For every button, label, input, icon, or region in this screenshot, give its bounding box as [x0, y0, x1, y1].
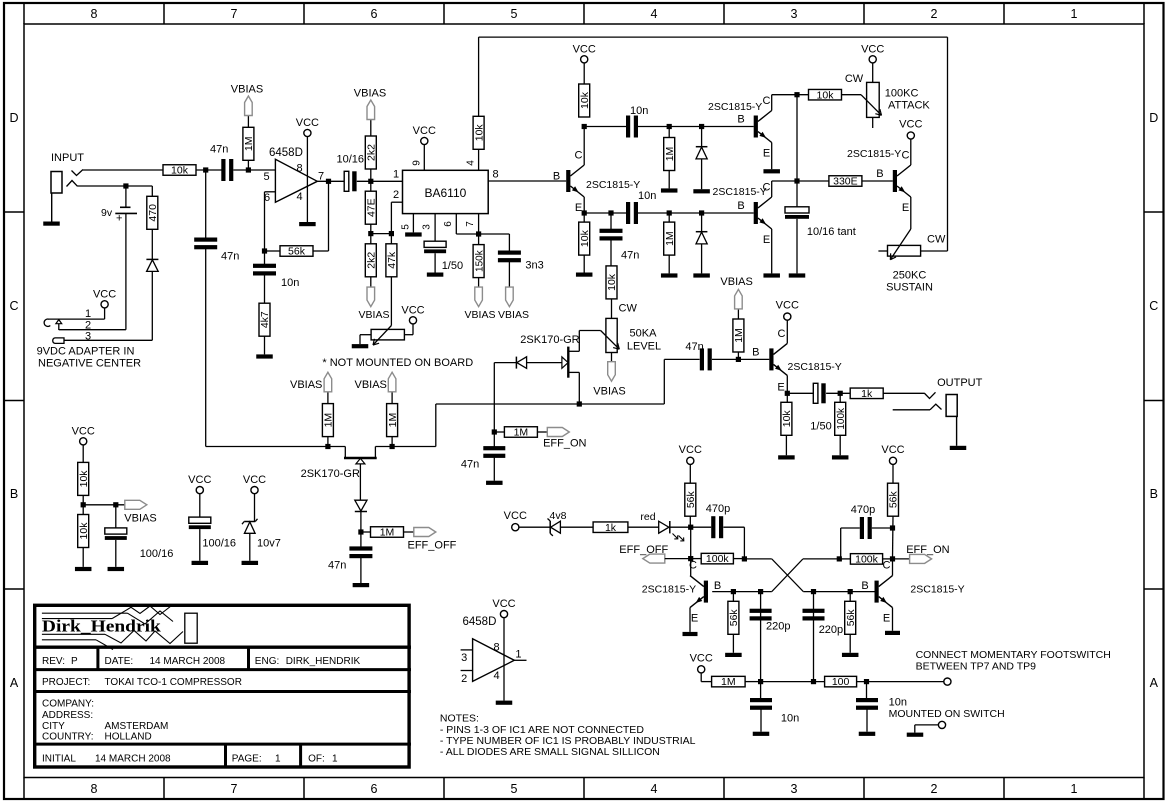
junction 220p left node	[758, 589, 763, 594]
junction divider	[81, 502, 86, 507]
svg-text:100k: 100k	[855, 554, 879, 566]
VCC 56k FF left	[687, 457, 694, 464]
svg-text:Dirk_Hendrik: Dirk_Hendrik	[42, 617, 162, 636]
svg-text:10k: 10k	[78, 522, 90, 540]
sustain pot left stub	[878, 250, 887, 252]
ground 1/50	[427, 273, 444, 277]
rail wire right side	[947, 37, 949, 251]
svg-text:VBIAS: VBIAS	[231, 84, 263, 96]
svg-text:B: B	[737, 200, 744, 212]
svg-text:VBIAS: VBIAS	[359, 309, 390, 321]
svg-text:C: C	[763, 95, 771, 107]
wire level pot bottom to VBIAS	[611, 353, 613, 362]
svg-text:4: 4	[494, 670, 500, 682]
svg-text:10n: 10n	[638, 190, 656, 202]
svg-text:E: E	[691, 613, 698, 625]
svg-text:10n: 10n	[889, 697, 907, 709]
junction 56k right base	[848, 589, 853, 594]
svg-text:2SC1815-Y: 2SC1815-Y	[708, 101, 762, 113]
VCC attack pot	[869, 56, 876, 63]
resistor 4k7	[259, 303, 270, 336]
svg-text:220p: 220p	[766, 621, 790, 633]
svg-text:- ALL DIODES ARE SMALL SIGNAL: - ALL DIODES ARE SMALL SIGNAL SILLICON	[440, 746, 660, 758]
svg-text:5: 5	[511, 7, 518, 21]
wire Q5 emitter	[786, 375, 788, 393]
svg-text:C: C	[778, 328, 786, 340]
svg-text:CW: CW	[927, 234, 946, 246]
svg-text:47n: 47n	[461, 459, 479, 471]
wire LED to FF left collector	[670, 526, 691, 528]
wire 10k to attack pot wiper	[842, 94, 862, 96]
svg-text:56k: 56k	[845, 609, 857, 627]
resistor 150k	[478, 234, 480, 245]
svg-text:150k: 150k	[474, 249, 485, 272]
VCC divider	[80, 438, 87, 445]
frame row ticks left	[4, 211, 24, 213]
junction input node	[203, 167, 208, 172]
svg-text:CW: CW	[845, 73, 864, 85]
wire VCC U2 to ground	[503, 618, 505, 701]
title row5 dividers	[224, 744, 227, 767]
svg-text:CW: CW	[619, 303, 638, 315]
ground U2	[496, 701, 513, 705]
jack tip contact	[72, 170, 84, 176]
wire 56k to output node	[313, 250, 329, 252]
adapter center pin arrow	[56, 320, 62, 324]
wire 4v8 to 1k	[560, 526, 593, 528]
JFET1 gate wire	[359, 464, 361, 500]
pin6 stub	[265, 191, 276, 193]
svg-text:VCC: VCC	[861, 43, 884, 55]
potentiometer 100KC ATTACK	[867, 82, 880, 117]
junction 1M lower node	[667, 210, 672, 215]
wire 1k to LED	[628, 526, 659, 528]
svg-text:C: C	[763, 182, 771, 194]
svg-text:MOUNTED ON SWITCH: MOUNTED ON SWITCH	[889, 708, 1005, 720]
svg-text:8: 8	[492, 169, 498, 181]
ground zener	[242, 561, 258, 565]
svg-text:VCC: VCC	[93, 288, 116, 300]
JFET Q6 2SK170-GR	[344, 447, 346, 459]
ground trimmer	[352, 344, 369, 348]
resistor 1M-b	[391, 437, 393, 447]
svg-text:B: B	[876, 168, 883, 180]
resistor 1M Q5 bias	[737, 352, 739, 359]
cross couple diag left	[744, 558, 771, 560]
junction bottom mid	[811, 679, 816, 684]
junction bottom left	[758, 679, 763, 684]
svg-text:TOKAI TCO-1 COMPRESSOR: TOKAI TCO-1 COMPRESSOR	[105, 677, 242, 688]
svg-text:7: 7	[231, 7, 238, 21]
svg-text:470p: 470p	[851, 504, 875, 516]
resistor 2k2 lower	[370, 234, 372, 244]
svg-text:4: 4	[466, 160, 477, 166]
potentiometer 50KA LEVEL	[606, 318, 617, 352]
level pot wiper	[579, 330, 600, 332]
svg-text:BETWEEN TP7 AND TP9: BETWEEN TP7 AND TP9	[916, 661, 1037, 673]
svg-text:VBIAS: VBIAS	[498, 309, 529, 321]
svg-text:1: 1	[515, 649, 521, 661]
title row2 line	[33, 668, 411, 671]
svg-text:P: P	[71, 656, 78, 667]
svg-text:A: A	[10, 676, 19, 690]
svg-text:OF:: OF:	[308, 754, 325, 765]
wire divider to VBIAS flag	[83, 504, 125, 506]
bus wire mid	[436, 403, 665, 405]
transistor Q4 2SC1815-Y sustain	[893, 170, 897, 192]
wire to Q3 base	[702, 212, 754, 214]
input jack J1	[51, 172, 62, 194]
wire VCC to zener 4v8	[519, 526, 550, 528]
svg-text:1M: 1M	[387, 413, 399, 428]
svg-text:8: 8	[91, 7, 98, 21]
wire EFF_OFF to collector node	[665, 558, 691, 560]
wire 1k to output jack	[883, 392, 924, 394]
junction attack node	[794, 92, 799, 97]
testpoint TP7	[944, 678, 951, 685]
resistor 10k attack	[809, 89, 842, 100]
svg-text:+: +	[116, 213, 122, 225]
VBIAS flag 3n3	[506, 287, 514, 307]
svg-text:3n3: 3n3	[525, 260, 543, 272]
junction 1M-b node	[390, 444, 395, 449]
svg-text:2: 2	[931, 7, 938, 21]
ground 4k7	[256, 354, 273, 358]
svg-text:10k: 10k	[171, 165, 189, 177]
resistor 1M EFF_OFF	[361, 531, 371, 533]
capacitor 1/50 output	[813, 383, 818, 403]
resistor 1k LED	[593, 522, 628, 533]
wire bottom row	[761, 681, 825, 683]
wire Q8 base row	[712, 591, 772, 593]
wire diode to pin3 line	[151, 271, 153, 340]
resistor 1M lower	[668, 213, 670, 222]
VCC filter cap	[196, 487, 203, 494]
VBIAS flag level pot	[608, 362, 616, 382]
svg-text:E: E	[883, 613, 890, 625]
svg-text:DIRK_HENDRIK: DIRK_HENDRIK	[286, 656, 361, 667]
wire Q2 emitter to ground	[771, 143, 773, 170]
svg-text:INPUT: INPUT	[51, 152, 84, 164]
junction diode D1 node	[699, 124, 704, 129]
pin 3 wire	[434, 214, 436, 242]
svg-text:10/16: 10/16	[337, 154, 365, 166]
wire 100 to TP7	[857, 681, 944, 683]
ground pin5	[405, 232, 422, 236]
resistor 10k divider lower	[78, 515, 89, 548]
ground Q3 emitter	[763, 273, 780, 277]
svg-text:BA6110: BA6110	[424, 186, 466, 200]
VCC Q4	[907, 132, 914, 139]
U2 pin2 stub	[461, 670, 473, 672]
cross couple diag right	[803, 558, 839, 560]
output jack ring stub	[893, 409, 930, 411]
wire Q9 collector riser	[892, 559, 894, 576]
svg-text:B: B	[714, 580, 721, 592]
capacitor 10n bottom left	[760, 682, 762, 699]
wire 100k to junction	[733, 558, 744, 560]
capacitor 220p left	[750, 609, 772, 613]
svg-text:VBIAS: VBIAS	[290, 379, 322, 391]
bus wire JFET1 right	[375, 446, 435, 448]
resistor 10k input	[163, 165, 196, 176]
svg-text:EFF_ON: EFF_ON	[543, 438, 586, 450]
pin 5 wire	[412, 214, 414, 233]
junction 100/16 node	[113, 502, 118, 507]
junction 47k top	[389, 231, 394, 236]
feedback wire down	[264, 192, 266, 265]
svg-text:ADDRESS:: ADDRESS:	[42, 710, 93, 721]
output jack J2	[946, 395, 957, 417]
svg-text:10k: 10k	[579, 229, 591, 247]
svg-text:1M: 1M	[664, 231, 676, 246]
svg-text:2SC1815-Y: 2SC1815-Y	[586, 179, 640, 191]
svg-text:B: B	[861, 580, 868, 592]
wire Q2 collector to top node	[771, 95, 773, 111]
svg-text:1: 1	[275, 754, 281, 765]
svg-text:D: D	[9, 111, 18, 125]
op-amp U1 6458D	[275, 159, 317, 202]
svg-text:10n: 10n	[281, 277, 299, 289]
svg-text:E: E	[575, 202, 582, 214]
svg-text:* NOT MOUNTED ON BOARD: * NOT MOUNTED ON BOARD	[322, 357, 473, 369]
EFF_OFF flag FF	[643, 554, 665, 563]
wire VCC to zener	[254, 494, 256, 522]
svg-text:10k: 10k	[473, 124, 485, 142]
svg-text:VCC: VCC	[573, 43, 596, 55]
capacitor 47n EFF_ON	[483, 446, 505, 450]
svg-text:2SK170-GR: 2SK170-GR	[301, 468, 360, 480]
wire 47n to Q5 base	[712, 358, 769, 360]
svg-text:47n: 47n	[221, 251, 239, 263]
resistor 56k FF right base	[849, 592, 851, 602]
resistor 10k Q1 collector	[579, 84, 590, 117]
diode D1	[701, 127, 703, 147]
ground Q9 emitter	[885, 631, 900, 635]
VCC trimmer	[409, 317, 416, 324]
trimmer not mounted	[371, 329, 404, 340]
svg-text:CITY: CITY	[42, 721, 65, 732]
adapter plug pill	[53, 338, 64, 344]
ground 100/16 supply	[192, 561, 209, 565]
resistor 100k output	[839, 393, 841, 402]
svg-text:2: 2	[461, 673, 467, 685]
svg-text:2SC1815-Y: 2SC1815-Y	[788, 361, 842, 373]
zener diode 4v8	[549, 521, 551, 533]
svg-text:6: 6	[371, 7, 378, 21]
junction 100k node	[838, 391, 843, 396]
junction FF left collector	[688, 556, 693, 561]
svg-text:9: 9	[412, 160, 423, 166]
testpoint TP9 switch	[938, 721, 945, 728]
ground 10k Q5	[785, 435, 787, 455]
ground 100k output	[839, 435, 841, 455]
svg-text:330E: 330E	[833, 176, 858, 188]
svg-text:10k: 10k	[781, 410, 793, 428]
EFF_ON flag FF	[893, 558, 910, 560]
junction 330E node	[794, 178, 799, 183]
wire 10k to 47n	[196, 169, 222, 171]
svg-text:14 MARCH 2008: 14 MARCH 2008	[95, 754, 171, 765]
ground TP9	[907, 733, 924, 737]
resistor 1M bottom	[712, 676, 746, 687]
junction 1M-a node	[325, 444, 330, 449]
svg-text:470: 470	[147, 204, 159, 222]
ground divider	[82, 548, 84, 567]
capacitor 3n3	[498, 251, 521, 255]
svg-text:9VDC ADAPTER IN: 9VDC ADAPTER IN	[37, 346, 135, 358]
svg-text:VCC: VCC	[413, 125, 436, 137]
VBIAS source flag	[125, 500, 147, 509]
svg-text:VCC: VCC	[492, 598, 515, 610]
svg-text:VBIAS: VBIAS	[354, 379, 386, 391]
svg-text:1: 1	[1071, 782, 1078, 796]
VBIAS flag 2k2	[370, 120, 372, 137]
svg-text:NEGATIVE CENTER: NEGATIVE CENTER	[38, 358, 141, 370]
svg-text:VBIAS: VBIAS	[354, 88, 386, 100]
wire ring to battery node	[78, 185, 153, 187]
wire zener ground	[249, 533, 251, 561]
transistor Q5 2SC1815-Y output	[769, 348, 773, 370]
svg-text:C: C	[1149, 299, 1158, 313]
junction Q1 collector node	[582, 124, 587, 129]
capacitor 47n EFF_OFF	[349, 546, 372, 550]
svg-text:1: 1	[1071, 7, 1078, 21]
svg-text:EFF_OFF: EFF_OFF	[619, 544, 668, 556]
junction Q5 bias node	[736, 357, 741, 362]
pin 6 wire	[455, 214, 457, 234]
junction 56k FF left base	[731, 589, 736, 594]
capacitor 47n shunt input	[194, 238, 217, 242]
svg-text:10n: 10n	[781, 713, 799, 725]
junction FF right collector	[890, 556, 895, 561]
svg-text:3: 3	[791, 7, 798, 21]
resistor 56k feedback	[265, 250, 281, 252]
svg-text:VBIAS: VBIAS	[593, 386, 625, 398]
resistor 330E	[797, 180, 829, 182]
junction diode D2 node	[699, 210, 704, 215]
svg-text:PAGE:: PAGE:	[232, 754, 262, 765]
VCC zener	[251, 487, 258, 494]
resistor 1M JFET drain bias	[327, 437, 329, 447]
svg-text:1: 1	[393, 169, 399, 181]
svg-text:VCC: VCC	[776, 300, 799, 312]
svg-text:C: C	[689, 560, 697, 572]
svg-text:100k: 100k	[836, 407, 847, 430]
svg-text:10k: 10k	[78, 470, 90, 488]
svg-text:7: 7	[465, 221, 476, 227]
capacitor 100/16 bias	[115, 505, 117, 528]
VCC adapter pin1	[101, 301, 108, 308]
wire 3n3 to VBIAS	[508, 262, 510, 287]
resistor 10k Q5 emitter	[786, 393, 788, 402]
junction op-amp output	[326, 179, 331, 184]
ground 1M upper	[668, 171, 670, 189]
junction FF left collector top	[688, 525, 693, 530]
ground 47n EFF_OFF	[353, 583, 370, 587]
svg-text:PROJECT:: PROJECT:	[42, 677, 90, 688]
capacitor 470p left	[691, 526, 712, 528]
wire attack node down	[796, 95, 798, 207]
frame column ticks top	[23, 3, 25, 24]
svg-text:E: E	[777, 382, 784, 394]
svg-text:EFF_ON: EFF_ON	[906, 544, 949, 556]
transistor Q8 2SC1815-Y FF left	[704, 581, 708, 603]
junction Q5 emitter	[785, 391, 790, 396]
svg-text:VCC: VCC	[243, 474, 266, 486]
resistor 56k FF left	[685, 483, 696, 516]
wire D5 to EFF_ON branch	[494, 362, 516, 364]
svg-text:100KC: 100KC	[885, 88, 919, 100]
wire to 47k junction	[371, 233, 392, 235]
frame row ticks right	[1144, 211, 1164, 213]
svg-text:1/50: 1/50	[810, 421, 831, 433]
svg-text:E: E	[902, 202, 909, 214]
junction 220p right node	[811, 589, 816, 594]
svg-text:100k: 100k	[706, 553, 730, 565]
svg-text:2k2: 2k2	[366, 252, 378, 269]
svg-text:56k: 56k	[685, 490, 697, 508]
svg-text:VCC: VCC	[899, 119, 922, 131]
wire Q3 collector to 330E node	[771, 181, 773, 197]
sustain pot right wire	[921, 250, 948, 252]
resistor 470	[151, 186, 153, 196]
ground D2	[693, 273, 710, 277]
ground op-amp U1	[299, 222, 316, 226]
svg-text:1M: 1M	[323, 413, 335, 428]
wire Q5 emitter to 1/50	[787, 392, 813, 394]
svg-text:5: 5	[401, 224, 412, 230]
resistor 10k pin4	[473, 116, 484, 149]
wire VCC to 100/16	[199, 494, 201, 517]
svg-text:COMPANY:: COMPANY:	[42, 699, 94, 710]
wire 220p left column	[760, 592, 762, 682]
wire 47k to trimmer	[390, 277, 392, 326]
resistor 2k2 upper	[370, 169, 372, 181]
resistor 56k FF right	[888, 483, 899, 516]
wire jack sleeve to ground	[51, 193, 53, 222]
svg-text:VCC: VCC	[296, 117, 319, 129]
svg-text:47n: 47n	[328, 560, 346, 572]
svg-text:470p: 470p	[706, 503, 730, 515]
EFF_OFF flag lower	[404, 531, 414, 533]
pin 7 wire	[478, 214, 480, 234]
VCC Q1	[581, 56, 588, 63]
wire Q8 collector diag join	[690, 575, 692, 577]
U2 pin3 stub	[461, 649, 473, 651]
wire 47n to op-amp pin5	[233, 169, 275, 171]
ground 47n EFF_ON	[486, 481, 503, 485]
capacitor 47n detector	[600, 229, 623, 233]
wire 47n to ground EFF_ON	[493, 457, 495, 480]
svg-text:47E: 47E	[366, 198, 378, 217]
svg-text:47n: 47n	[685, 341, 703, 353]
title block logo row line	[33, 646, 411, 649]
title row3 line	[33, 690, 411, 693]
svg-text:VCC: VCC	[881, 444, 904, 456]
wire right base row	[803, 591, 874, 593]
resistor 100k FF right	[839, 558, 850, 560]
resistor 1k output	[850, 388, 883, 399]
svg-text:VCC: VCC	[72, 425, 95, 437]
wire Q9 emitter	[892, 608, 894, 631]
svg-text:ENG:: ENG:	[255, 656, 279, 667]
wire 4k7 to ground	[264, 336, 266, 354]
wire pin3	[64, 339, 152, 341]
VBIAS flag 1M-b	[391, 392, 393, 404]
bus wire left	[206, 446, 346, 448]
pin 8 wire	[488, 180, 566, 182]
